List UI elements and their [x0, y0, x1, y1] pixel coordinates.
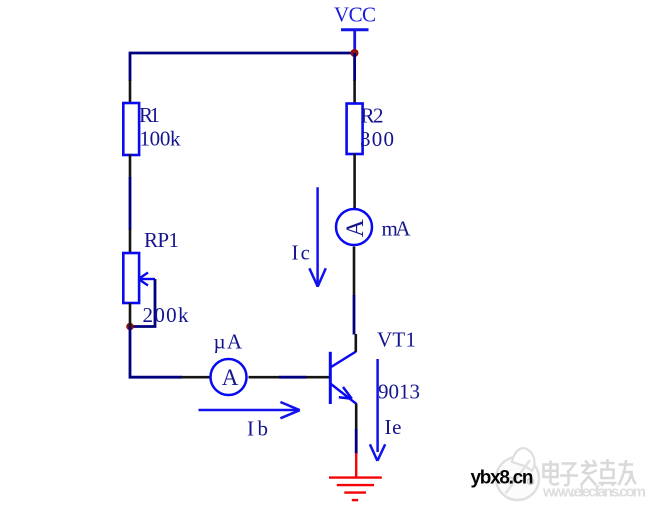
svg-text:µA: µA [214, 330, 243, 354]
watermark hanzi 5 [619, 460, 637, 486]
pin A2 bottom [353, 247, 356, 296]
svg-text:VT1: VT1 [377, 328, 416, 352]
svg-text:100k: 100k [140, 126, 182, 150]
current arrow Ie [370, 359, 385, 461]
resistor R2 [347, 104, 363, 155]
svg-text:VCC: VCC [334, 3, 376, 27]
wire junction to R2 [353, 53, 356, 81]
wire A2 to collector [353, 295, 356, 335]
wire A1 to base [279, 376, 307, 379]
pin base VT1 [306, 376, 330, 379]
svg-text:RP1: RP1 [144, 228, 179, 252]
svg-text:Ie: Ie [385, 415, 402, 439]
watermark hanzi 1 [544, 461, 560, 485]
watermark logo circle [496, 448, 539, 500]
junction top [351, 49, 359, 57]
svg-text:ybx8.cn: ybx8.cn [471, 468, 534, 489]
pin R2.1 [353, 80, 356, 104]
svg-text:A: A [342, 219, 369, 237]
svg-text:Ib: Ib [247, 417, 268, 441]
pin collector VT1 [354, 334, 357, 352]
ammeter A1 [211, 359, 247, 395]
watermark hanzi 4 [599, 459, 617, 486]
ammeter A2 [336, 209, 372, 245]
transistor VT1 [330, 352, 356, 405]
current arrow Ib [199, 402, 300, 418]
pin ammeter A1 right [249, 376, 280, 379]
svg-text:mA: mA [382, 217, 412, 241]
pin R1.1 [129, 80, 132, 104]
wire emitter to ground [355, 429, 358, 454]
svg-text:300: 300 [360, 127, 394, 151]
junction wiper [126, 323, 134, 331]
pin RP1.2 [129, 303, 132, 327]
resistor R1 [123, 103, 139, 155]
wire left down and across [130, 327, 182, 378]
svg-text:9013: 9013 [378, 380, 420, 404]
wire R1 to RP1 [129, 177, 132, 230]
pin RP1.1 [129, 229, 132, 254]
wire wiper return [129, 279, 155, 327]
pin ammeter A1 left [181, 376, 211, 379]
svg-text:200k: 200k [143, 303, 190, 327]
watermark hanzi 3 [581, 460, 598, 486]
svg-text:A: A [222, 365, 239, 390]
pin emitter VT1 [355, 404, 358, 431]
svg-text:Ic: Ic [292, 241, 311, 265]
RP1 wiper arrow [139, 273, 156, 286]
wire R2 to A2 [353, 154, 356, 210]
power bar VCC [341, 30, 369, 51]
potentiometer RP1 body [123, 253, 139, 303]
wire top horizontal [130, 53, 355, 81]
watermark hanzi 2 [560, 464, 578, 486]
svg-text:www.elecfans.com: www.elecfans.com [542, 484, 646, 501]
current arrow Ic [309, 187, 325, 287]
ground [329, 453, 382, 500]
svg-text:R2: R2 [361, 104, 384, 128]
pin R1.2 [129, 154, 132, 179]
svg-text:R1: R1 [139, 103, 160, 127]
